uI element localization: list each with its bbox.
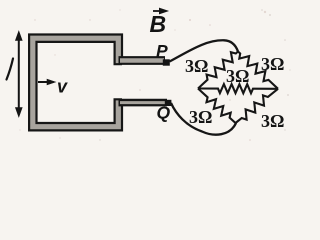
svg-text:3Ω: 3Ω: [261, 111, 284, 131]
velocity arrow v: [38, 79, 56, 85]
svg-text:Q: Q: [157, 103, 171, 123]
conductor rail U-loop (gray band fill): [33, 38, 122, 127]
rail arm to P (gray fill): [120, 58, 164, 63]
svg-text:3Ω: 3Ω: [185, 56, 208, 76]
length arrow (double-headed, label l): [15, 31, 22, 117]
svg-text:3Ω: 3Ω: [226, 66, 249, 86]
rail arm to Q (black edges): [119, 99, 168, 107]
svg-text:v: v: [57, 77, 68, 97]
rail arm to P (black edges): [119, 56, 166, 65]
svg-text:3Ω: 3Ω: [261, 54, 284, 74]
svg-text:B: B: [150, 11, 167, 37]
resistor 3ohm bottom-left (left node to bottom node): [198, 89, 236, 124]
svg-text:3Ω: 3Ω: [189, 107, 212, 127]
label l: [7, 59, 14, 80]
resistor 3ohm bottom-right (right node to bottom node): [236, 89, 279, 123]
resistor 3ohm top-left (node P-side top to left node): [198, 52, 238, 89]
resistor 3ohm top-right (top node to right node): [238, 52, 278, 89]
conductor rail U-loop (black edges): [33, 38, 122, 127]
wire from Q to bottom node: [171, 103, 236, 135]
resistor 3ohm middle (left node to right node): [198, 84, 278, 93]
svg-text:P: P: [156, 41, 168, 61]
rail arm to Q (gray fill): [120, 101, 166, 104]
terminal Q (black square): [165, 100, 172, 106]
wire from P to top node: [170, 40, 239, 61]
terminal P (black square): [163, 59, 170, 65]
